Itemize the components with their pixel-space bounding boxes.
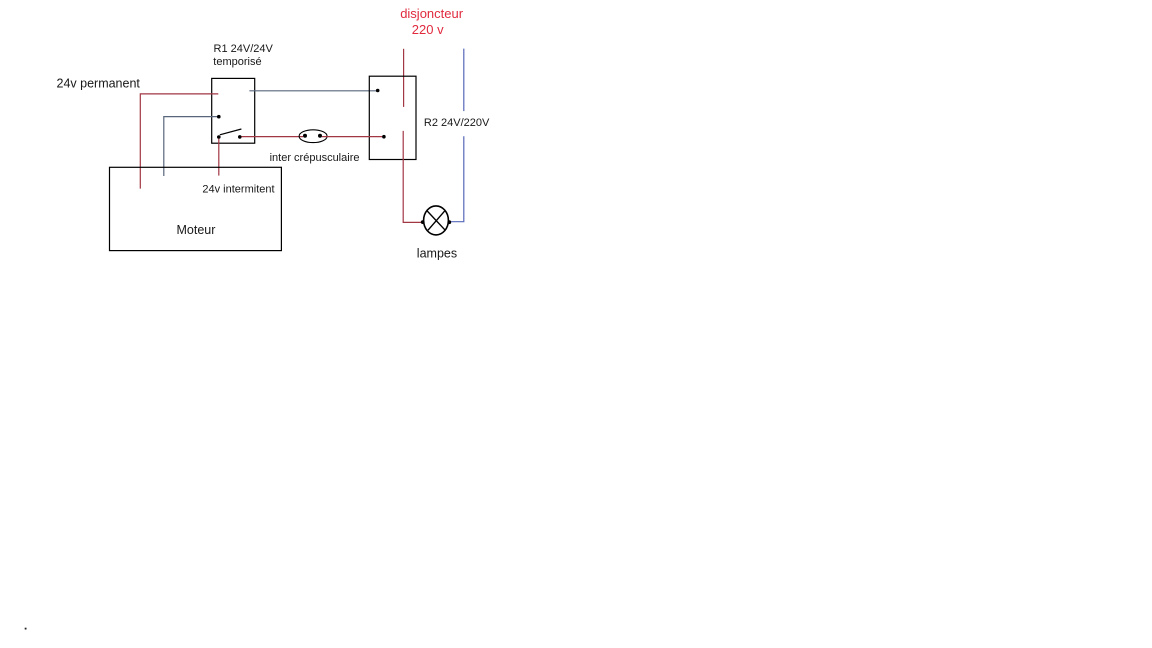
svg-text:inter crépusculaire: inter crépusculaire — [270, 152, 360, 164]
switch lever in R1 — [220, 129, 242, 135]
wire: blue link R1 to R2 coil — [249, 90, 377, 92]
stray dot bottom left — [25, 628, 27, 630]
inter crépusculaire oval — [299, 130, 327, 143]
svg-text:24v intermitent: 24v intermitent — [202, 184, 274, 196]
label: R1 24V/24V temporisé — [213, 43, 273, 68]
wire: blue 24v from Moteur up to R1 coil — [164, 117, 218, 176]
svg-text:lampes: lampes — [417, 246, 457, 260]
node: R1 coil terminal — [217, 115, 221, 119]
label: disjoncteur 220 v — [400, 6, 464, 37]
relay R1 box — [212, 78, 255, 143]
wire: blue neutral down to lamp — [451, 136, 464, 221]
svg-text:Moteur: Moteur — [177, 223, 216, 237]
svg-text:24v permanent: 24v permanent — [57, 76, 141, 90]
node: R2 blue coil terminal — [376, 89, 380, 93]
node: R2 red coil terminal — [382, 135, 386, 139]
svg-text:R1 24V/24V: R1 24V/24V — [214, 43, 274, 55]
node: switch NO terminal — [238, 135, 242, 139]
node: oval left contact — [303, 134, 307, 138]
svg-text:disjoncteur: disjoncteur — [400, 6, 464, 21]
wire: 24v intermittent red vertical into Moteur — [218, 139, 220, 176]
node: lamp left terminal — [421, 220, 425, 224]
wire: 220V phase red vertical from disjoncteur — [403, 49, 405, 107]
svg-text:R2 24V/220V: R2 24V/220V — [424, 117, 490, 129]
lamp symbol — [424, 206, 449, 235]
wire: red 220V switched output down to lamp — [403, 131, 421, 223]
node: lamp right terminal — [447, 220, 451, 224]
wire: red from inter crépusculaire to R2 — [322, 136, 382, 138]
Moteur box — [110, 167, 282, 250]
wire: 220V neutral blue vertical from disjoncteur — [463, 49, 465, 112]
svg-text:temporisé: temporisé — [213, 56, 261, 68]
node: switch common terminal — [217, 135, 221, 139]
svg-text:220 v: 220 v — [412, 22, 444, 37]
wire: 24v permanent red feed to R1 and down into Moteur — [140, 94, 218, 189]
wire: red from R1 switch to inter crépusculaire — [241, 136, 303, 138]
relay R2 box — [369, 76, 416, 159]
node: oval right contact — [318, 134, 322, 138]
